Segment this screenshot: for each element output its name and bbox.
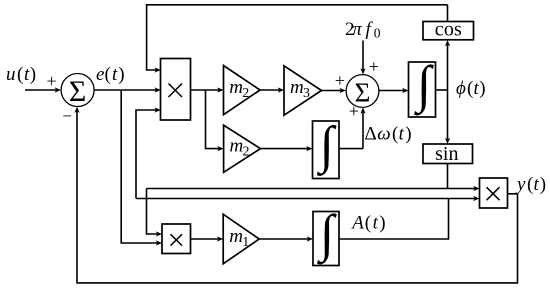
wire S2 to integrator I1 [379, 90, 404, 92]
svg-text:A: A [350, 213, 364, 234]
wire y(t) output and feedback loop to S1 minus input [77, 111, 518, 283]
wire phi up into cos block [447, 45, 449, 90]
wire cos output up to top feedback [447, 5, 449, 22]
amplifier m2a [224, 66, 261, 115]
svg-text:): ) [479, 78, 485, 99]
svg-text:∫: ∫ [414, 57, 434, 116]
wire M1 output to amplifier m2a [191, 89, 219, 91]
wire u(t) input arrow [25, 89, 56, 91]
wire 2*pi*f0 down into summer S2 top [362, 41, 364, 70]
wire sine bus horizontal to output multiplier M3 [147, 188, 475, 190]
wire top feedback horizontal [146, 4, 448, 6]
svg-text:(: ( [105, 64, 111, 85]
wire delta-omega up into summer S2 bottom [362, 112, 364, 148]
svg-text:ϕ: ϕ [456, 78, 466, 99]
svg-text:+: + [369, 56, 379, 76]
svg-text:ω: ω [377, 124, 390, 145]
svg-text:e: e [96, 64, 104, 85]
svg-text:(: ( [527, 174, 533, 195]
svg-text:m: m [229, 77, 243, 98]
amplifier m2b [224, 125, 261, 172]
wire I2 output to delta-omega node [339, 148, 363, 150]
svg-text:y: y [515, 174, 526, 195]
svg-text:): ) [118, 64, 124, 85]
label A(t) [350, 213, 385, 234]
integrator I2 (delta omega) [313, 121, 340, 179]
label delta-omega(t) [365, 124, 412, 145]
svg-text:cos: cos [435, 18, 462, 40]
svg-text:u: u [6, 64, 16, 85]
svg-text:t: t [112, 64, 118, 85]
label y(t) [515, 174, 546, 195]
wire branch from M1 output down to amplifier m2b [206, 90, 219, 149]
svg-text:1: 1 [242, 235, 249, 250]
integrator I3 (A) [313, 212, 339, 266]
wire top feedback down into M1 top input [147, 5, 156, 70]
wire A(t) bus horizontal to output multiplier M3 [136, 198, 475, 200]
svg-text:m: m [290, 77, 304, 98]
svg-text:∫: ∫ [317, 206, 337, 265]
label 2*pi*f0 [345, 19, 381, 41]
amplifier m1 [223, 214, 259, 264]
summer S1 [61, 74, 94, 107]
svg-text:+: + [349, 101, 359, 121]
svg-text:): ) [540, 174, 546, 195]
summer S2 [346, 75, 379, 108]
wire branch from e(t) down to multiplier M2 lower input [121, 90, 157, 243]
wire phi down into sin block [447, 90, 449, 139]
svg-text:m: m [230, 136, 244, 157]
label e(t) [96, 64, 125, 85]
output multiplier M3 [480, 178, 508, 208]
amplifier m3 [284, 66, 322, 115]
sin block [423, 144, 473, 164]
svg-text:Σ: Σ [69, 75, 86, 108]
wire m3 to summer S2 [322, 90, 342, 92]
svg-text:+: + [335, 71, 345, 91]
svg-text:Δ: Δ [365, 124, 377, 145]
wire e(t) from S1 to multiplier M1 [94, 89, 156, 91]
multiplier M2 (small box) [162, 224, 191, 254]
svg-text:): ) [379, 213, 385, 234]
multiplier M1 (tall box) [161, 59, 191, 121]
svg-text:∫: ∫ [317, 117, 337, 176]
svg-text:t: t [534, 174, 540, 195]
label phi(t) [456, 78, 486, 99]
svg-text:(: ( [467, 78, 473, 99]
svg-text:f: f [366, 19, 374, 40]
wire m2b to integrator I2 [261, 148, 308, 150]
cos block [423, 22, 474, 40]
wire sin output down to sine bus [447, 164, 449, 189]
svg-text:0: 0 [374, 26, 381, 41]
svg-text:2: 2 [242, 86, 249, 101]
wire m1 to integrator I3 [259, 238, 308, 240]
svg-text:(: ( [365, 213, 371, 234]
svg-text:2: 2 [243, 145, 250, 160]
wire I1 output to phi node [436, 89, 448, 91]
svg-text:π: π [352, 19, 362, 40]
integrator I1 (phi) [409, 62, 436, 117]
svg-text:sin: sin [435, 143, 458, 165]
svg-text:(: ( [392, 124, 398, 145]
svg-text:(: ( [17, 64, 23, 85]
label u(t) [6, 64, 36, 85]
wire sine bus down into multiplier M2 top input [147, 189, 158, 235]
svg-text:−: − [62, 107, 72, 126]
wire I3 output to A(t) bus [339, 199, 449, 240]
wire M2 output to amplifier m1 [191, 238, 219, 240]
svg-text:m: m [229, 226, 243, 247]
svg-text:3: 3 [303, 86, 310, 101]
svg-text:t: t [373, 213, 379, 234]
wire m2a to m3 [260, 89, 279, 91]
svg-text:t: t [399, 124, 405, 145]
svg-text:): ) [30, 64, 36, 85]
svg-text:): ) [405, 124, 411, 145]
svg-text:+: + [47, 71, 57, 91]
wire A(t) feedback up into multiplier M1 bottom input [136, 110, 156, 199]
